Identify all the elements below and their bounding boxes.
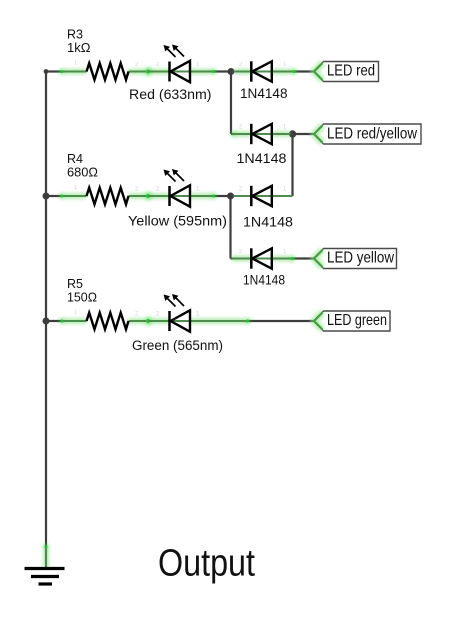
svg-text:2: 2	[135, 187, 139, 193]
svg-text:Yellow (595nm): Yellow (595nm)	[128, 214, 227, 229]
diode D4 1N4148	[232, 248, 295, 287]
wire LED red to node A	[213, 70, 231, 72]
wire LED green to flag	[247, 320, 314, 322]
svg-text:1N4148: 1N4148	[243, 273, 285, 288]
svg-text:1kΩ: 1kΩ	[67, 41, 91, 55]
svg-text:680Ω: 680Ω	[67, 166, 98, 180]
LED green	[132, 294, 251, 353]
svg-text:Red (633nm): Red (633nm)	[129, 87, 212, 102]
net flag LED green	[314, 311, 391, 331]
svg-text:1: 1	[74, 185, 78, 191]
wire node A down to D1	[230, 72, 232, 135]
svg-text:1N4148: 1N4148	[240, 86, 288, 101]
node bus top corner	[44, 69, 49, 74]
svg-text:Output: Output	[158, 543, 255, 585]
resistor R4	[59, 152, 153, 204]
wire bus to R5	[46, 320, 63, 322]
svg-text:1: 1	[196, 62, 200, 68]
diode D2 1N4148	[231, 124, 290, 166]
svg-text:1: 1	[74, 310, 78, 316]
svg-text:Green (565nm): Green (565nm)	[132, 338, 223, 353]
svg-text:1: 1	[283, 187, 287, 193]
svg-text:1N4148: 1N4148	[237, 151, 287, 166]
node bus-R5 junction dot	[43, 318, 50, 325]
svg-text:LED yellow: LED yellow	[327, 250, 394, 267]
svg-text:LED red: LED red	[327, 63, 375, 80]
svg-text:2: 2	[135, 62, 139, 68]
diode D1 1N4148	[235, 61, 298, 101]
wire D4 to LED yellow flag	[292, 257, 314, 259]
node B junction dot	[289, 130, 296, 137]
svg-text:1: 1	[283, 125, 287, 131]
ground	[25, 544, 65, 584]
wire D2 out to node B	[231, 133, 234, 135]
diode D3 1N4148	[234, 186, 294, 230]
wire bus to R4	[46, 195, 63, 197]
svg-text:1: 1	[196, 187, 200, 193]
net flag LED red/yellow	[314, 124, 422, 144]
svg-text:150Ω: 150Ω	[67, 291, 97, 305]
svg-text:1: 1	[283, 249, 287, 255]
net flag LED red	[314, 62, 379, 82]
svg-text:R4: R4	[67, 152, 83, 166]
ground bus wire (left vertical)	[45, 72, 47, 547]
svg-text:1: 1	[74, 61, 78, 67]
svg-text:2: 2	[156, 62, 160, 68]
node C junction dot	[227, 193, 234, 200]
wire LED yellow to node C	[213, 195, 231, 197]
svg-text:2: 2	[156, 187, 160, 193]
resistor R3	[59, 28, 153, 80]
svg-text:1N4148: 1N4148	[243, 215, 293, 230]
LED yellow	[128, 169, 227, 229]
resistor R5	[59, 277, 153, 329]
svg-text:2: 2	[135, 312, 139, 318]
wire node C down to D4	[229, 196, 231, 259]
node A junction dot	[228, 68, 235, 75]
svg-text:2: 2	[239, 125, 243, 131]
svg-text:LED green: LED green	[327, 312, 387, 329]
svg-text:R3: R3	[67, 28, 83, 42]
svg-text:LED red/yellow: LED red/yellow	[327, 126, 417, 143]
wire node B down to D3	[291, 134, 293, 196]
LED red	[129, 45, 217, 103]
net flag LED yellow	[314, 249, 397, 269]
svg-text:1: 1	[196, 312, 200, 318]
wire node B to LED red/yellow flag	[293, 133, 314, 135]
node bus-R4 junction dot	[43, 193, 50, 200]
wire node C to D4 corner horizontal	[231, 257, 235, 259]
wire bus corner to R3	[45, 70, 63, 72]
svg-text:R5: R5	[67, 277, 83, 291]
svg-text:1: 1	[283, 62, 287, 68]
svg-text:2: 2	[156, 312, 160, 318]
svg-text:2: 2	[239, 187, 243, 193]
wire D1 to LED red flag	[294, 70, 314, 72]
svg-text:2: 2	[239, 62, 243, 68]
svg-text:2: 2	[239, 249, 243, 255]
